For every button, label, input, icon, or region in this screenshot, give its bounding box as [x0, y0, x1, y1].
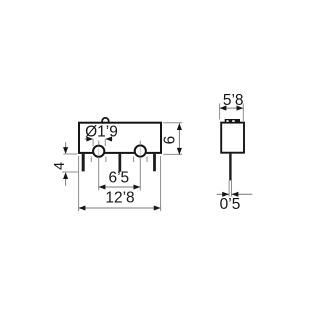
- dimension Ø1'9 label: [85, 124, 118, 141]
- front view: pin 2 (middle): [119, 154, 122, 172]
- front view: pin 1 (left): [82, 154, 85, 172]
- side view: pin: [229, 154, 231, 181]
- side view: top terminal block: [225, 119, 240, 123]
- dimension 6 lines and arrows: [163, 123, 182, 155]
- tick marks below right hole: [134, 157, 147, 163]
- front view: left hole: [93, 146, 104, 157]
- dimension 6'5 label: [108, 170, 129, 187]
- tick marks below left hole: [91, 157, 106, 163]
- front view: pin 3 (right): [153, 154, 156, 172]
- svg-text:0’5: 0’5: [220, 196, 241, 213]
- side view: switch body: [221, 123, 244, 153]
- dimension 0'5 extension lines: [229, 180, 231, 196]
- svg-text:4: 4: [52, 162, 68, 170]
- dimension Ø1'9 arrows: [85, 136, 113, 146]
- svg-text:6’5: 6’5: [108, 170, 129, 187]
- centerline right hole: [139, 141, 141, 191]
- centerline left hole: [98, 141, 100, 191]
- dimension 4 lines and arrows: [62, 142, 79, 186]
- dimension 4 label (left, rotated): [52, 162, 68, 170]
- dimension 0'5 label: [220, 196, 241, 213]
- dimension 6'5 line and arrows: [99, 184, 141, 189]
- front view: button dome on top: [102, 118, 109, 125]
- dimension 5'8 line and arrows: [220, 106, 244, 111]
- front view: right hole: [135, 145, 146, 156]
- svg-text:12’8: 12’8: [105, 190, 134, 207]
- dimension 12'8 extension lines: [79, 156, 161, 211]
- dimension 0'5 line and arrows: [217, 192, 253, 197]
- dimension 5'8 label: [223, 92, 244, 109]
- svg-text:6: 6: [161, 136, 178, 145]
- dimension 5'8 extension lines: [220, 104, 244, 122]
- front view: switch body: [79, 123, 161, 153]
- dimension 12'8 label: [105, 190, 134, 207]
- dimension 6 label (right of body, rotated): [161, 136, 178, 145]
- dimension 12'8 line and arrows: [79, 205, 161, 210]
